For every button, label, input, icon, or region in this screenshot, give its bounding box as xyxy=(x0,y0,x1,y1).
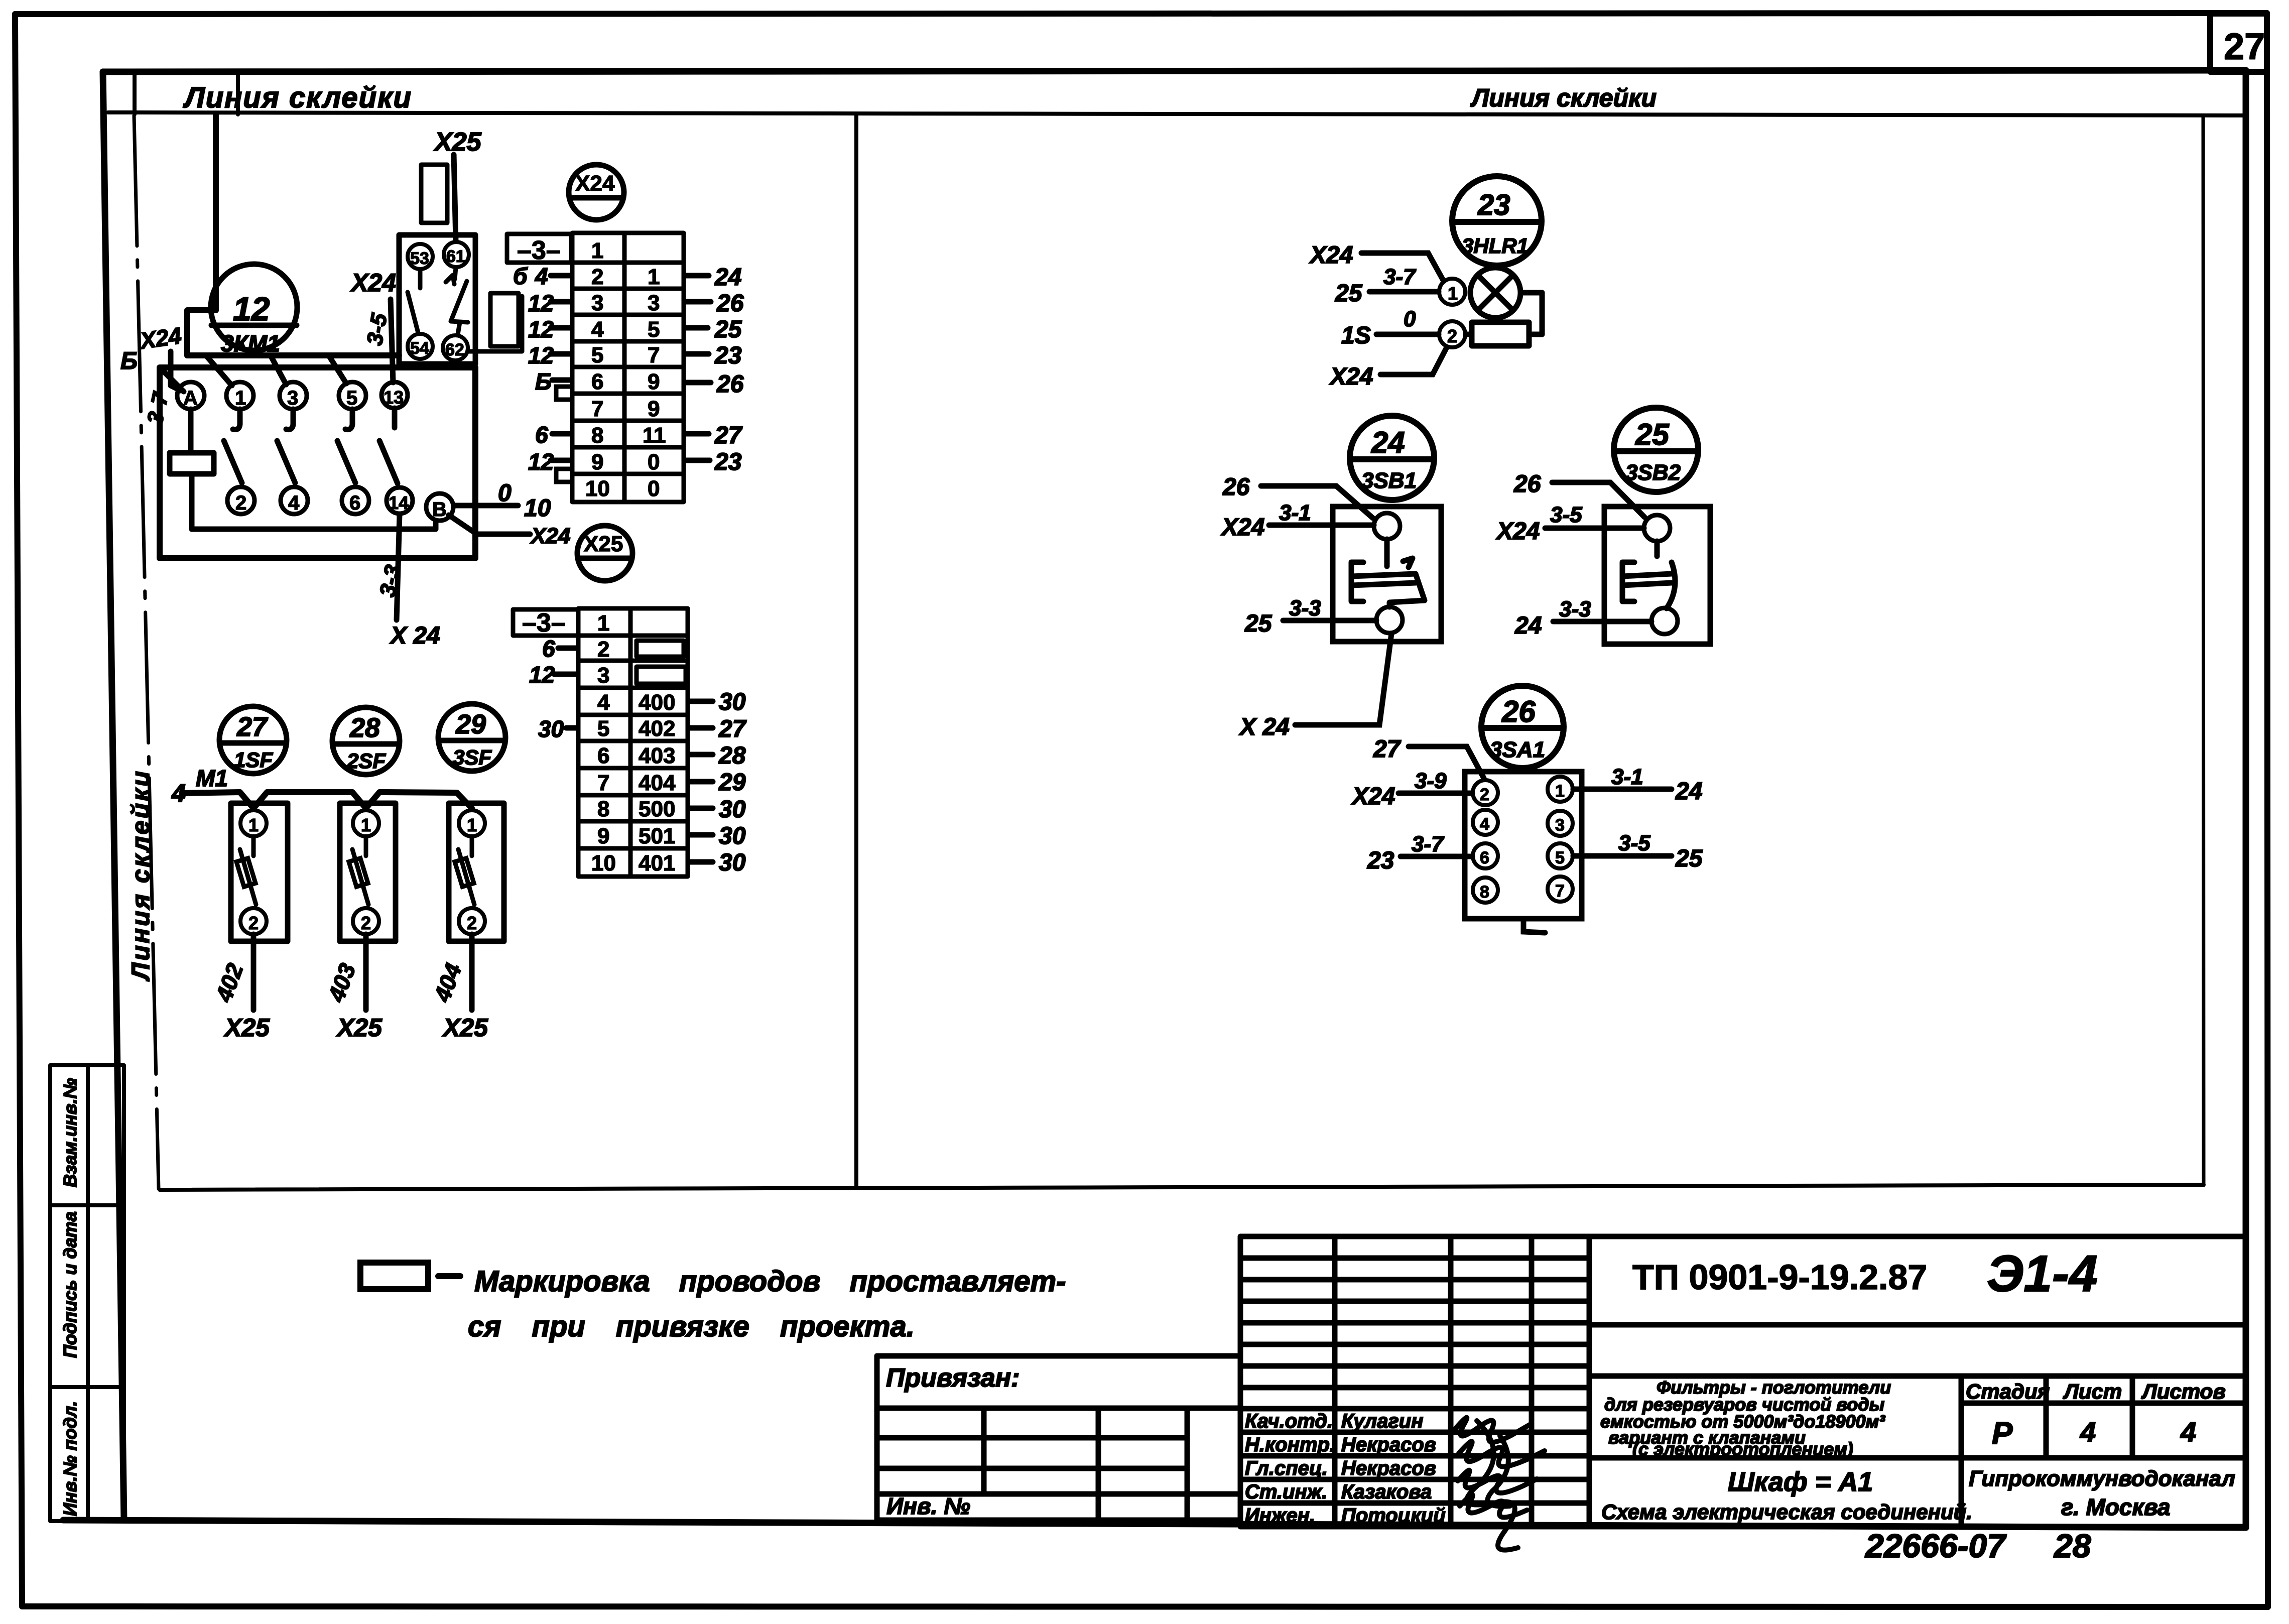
svg-text:5: 5 xyxy=(346,387,357,409)
terminal table X24 xyxy=(507,233,684,502)
3SA1 terminal 1 xyxy=(1548,777,1573,802)
svg-text:25: 25 xyxy=(714,316,742,343)
svg-text:5: 5 xyxy=(648,317,660,342)
svg-text:3: 3 xyxy=(648,291,660,315)
svg-text:23: 23 xyxy=(1367,847,1394,874)
svg-text:Б: Б xyxy=(535,368,552,395)
svg-text:30: 30 xyxy=(719,849,746,876)
terminal 13 xyxy=(381,382,408,408)
3SB1 bottom terminal xyxy=(1376,607,1403,633)
svg-text:13: 13 xyxy=(384,387,404,408)
svg-text:В: В xyxy=(432,498,447,521)
button 24/3SB1 designator circle xyxy=(1350,416,1434,500)
svg-text:25: 25 xyxy=(1635,418,1670,451)
3SA1 terminal 4 xyxy=(1473,810,1498,835)
svg-text:25: 25 xyxy=(1675,845,1703,872)
wire 1SF down to X25 xyxy=(251,934,257,1010)
svg-text:30: 30 xyxy=(719,796,746,823)
3SB1 top terminal xyxy=(1374,513,1400,539)
svg-text:8: 8 xyxy=(597,797,609,821)
svg-text:2: 2 xyxy=(361,913,371,933)
svg-text:3-1: 3-1 xyxy=(1279,501,1311,525)
glue line vertical right xyxy=(2203,115,2204,1185)
svg-text:2: 2 xyxy=(235,492,246,514)
svg-text:Шкаф = А1: Шкаф = А1 xyxy=(1728,1467,1873,1497)
svg-text:3-5: 3-5 xyxy=(1618,831,1650,855)
aux contact 61-62 with arrow xyxy=(455,268,456,279)
svg-text:12: 12 xyxy=(528,290,554,316)
privyazan block xyxy=(877,1356,1240,1520)
X24 table left edge hooks xyxy=(556,387,572,482)
wire X24 3-1 to 3SB1 top xyxy=(1269,523,1374,528)
svg-text:Гипрокоммунводоканал: Гипрокоммунводоканал xyxy=(1969,1466,2235,1491)
contact pole 5-6 xyxy=(345,409,352,430)
wire marking box at X25 wire xyxy=(421,165,447,223)
3SA1 terminal 5 xyxy=(1548,843,1573,868)
svg-text:9: 9 xyxy=(597,824,609,848)
title block grid xyxy=(1240,1236,2246,1527)
svg-text:24: 24 xyxy=(1371,426,1405,459)
svg-text:3SВ1: 3SВ1 xyxy=(1361,468,1417,493)
svg-text:Потоцкий: Потоцкий xyxy=(1341,1505,1446,1527)
svg-text:28: 28 xyxy=(349,713,380,743)
svg-text:6: 6 xyxy=(349,492,360,514)
svg-text:12: 12 xyxy=(528,449,554,475)
bus wire 4 M1 xyxy=(182,792,472,808)
lamp 23/3HLR1 designator circle xyxy=(1452,176,1542,266)
svg-text:Б: Б xyxy=(120,348,138,374)
svg-text:3-5: 3-5 xyxy=(1550,503,1582,527)
breaker 2SF body xyxy=(340,803,396,941)
svg-text:Стадия: Стадия xyxy=(1966,1380,2050,1403)
svg-text:–3–: –3– xyxy=(517,236,561,265)
svg-text:26: 26 xyxy=(1222,474,1250,501)
button 3SB1 body xyxy=(1333,507,1441,642)
schematic area middle divider xyxy=(854,115,858,1188)
svg-text:9: 9 xyxy=(648,397,660,421)
svg-text:Х24: Х24 xyxy=(1351,783,1395,810)
svg-text:26: 26 xyxy=(1513,471,1541,497)
coil 3KM1 xyxy=(170,453,214,474)
wire 62 to marking box xyxy=(468,296,522,351)
svg-text:4: 4 xyxy=(288,492,300,514)
svg-text:400: 400 xyxy=(639,690,675,715)
svg-text:Х24: Х24 xyxy=(1220,514,1264,541)
3SA1 terminal 8 xyxy=(1473,878,1498,903)
svg-text:26: 26 xyxy=(1501,695,1536,728)
wire X24 to lamp terminal 2 lower xyxy=(1380,347,1447,374)
svg-text:26: 26 xyxy=(716,371,744,398)
svg-text:26: 26 xyxy=(716,290,744,317)
svg-text:6: 6 xyxy=(535,422,548,448)
terminal B xyxy=(426,493,453,521)
3SA1 terminal 2 xyxy=(1473,780,1498,805)
svg-text:Привязан:: Привязан: xyxy=(886,1363,1020,1393)
svg-text:3-3: 3-3 xyxy=(1559,597,1591,621)
svg-text:3-7: 3-7 xyxy=(1383,265,1417,289)
wire B X24 3-7 down to terminal A xyxy=(171,351,181,391)
svg-text:Х24: Х24 xyxy=(1495,518,1540,545)
svg-text:2SF: 2SF xyxy=(346,749,386,773)
svg-text:Х 24: Х 24 xyxy=(1238,714,1290,740)
svg-text:29: 29 xyxy=(718,769,746,796)
svg-text:12: 12 xyxy=(528,342,554,368)
svg-text:3-7: 3-7 xyxy=(1412,832,1445,856)
svg-text:1SF: 1SF xyxy=(234,748,273,772)
svg-text:404: 404 xyxy=(639,771,676,795)
wire X24 to lamp terminal 1 upper xyxy=(1361,253,1444,281)
3SF breaker contact xyxy=(455,836,474,905)
svg-text:1: 1 xyxy=(248,815,259,835)
3SA1 terminal 3 xyxy=(1548,811,1573,836)
svg-text:10: 10 xyxy=(591,851,616,876)
svg-text:25: 25 xyxy=(1335,280,1363,307)
connector X25 designator circle xyxy=(577,526,632,581)
wire 15 0 to lamp terminal 2 xyxy=(1376,332,1439,337)
wire A to coil xyxy=(188,409,194,453)
wire 3-1 24 from terminal 1 xyxy=(1573,787,1672,792)
frame tick at wire top xyxy=(236,72,240,114)
wire X24 to 3SB1 bottom lower xyxy=(1295,634,1391,725)
switch 26/3SA1 designator circle xyxy=(1481,686,1564,768)
svg-text:501: 501 xyxy=(639,824,675,848)
wire housing corner to terminal A xyxy=(160,367,184,392)
svg-text:500: 500 xyxy=(639,797,675,821)
contact pole 1-2 xyxy=(233,409,240,430)
wire 3SF down to X25 xyxy=(469,934,475,1010)
legend dash xyxy=(438,1273,460,1279)
wire terminal B to X24 xyxy=(449,515,530,534)
terminal 6 xyxy=(342,487,369,514)
lamp symbol 3HLR1 xyxy=(1470,268,1520,318)
svg-text:1: 1 xyxy=(361,815,371,835)
wire 26 to 3SB1 top xyxy=(1261,486,1373,518)
svg-text:27: 27 xyxy=(714,422,743,449)
svg-text:12: 12 xyxy=(233,290,270,327)
svg-text:12: 12 xyxy=(529,662,555,688)
svg-text:7: 7 xyxy=(648,343,660,367)
svg-text:Некрасов: Некрасов xyxy=(1341,1434,1436,1456)
svg-text:27: 27 xyxy=(1373,736,1402,763)
contact pole 13-14 xyxy=(392,408,398,428)
svg-text:Взам.инв.№: Взам.инв.№ xyxy=(60,1078,80,1187)
svg-text:8: 8 xyxy=(591,423,603,448)
aux terminal 62 xyxy=(443,335,468,360)
svg-text:Инв.№ подл.: Инв.№ подл. xyxy=(60,1401,80,1516)
svg-text:4: 4 xyxy=(591,317,604,342)
1SF terminal 1 xyxy=(240,810,267,836)
svg-text:1: 1 xyxy=(597,611,609,636)
svg-text:7: 7 xyxy=(591,397,603,421)
svg-text:53: 53 xyxy=(410,249,429,268)
svg-text:3: 3 xyxy=(597,663,609,688)
svg-text:Инв. №: Инв. № xyxy=(886,1493,970,1519)
button 3SB2 body xyxy=(1604,507,1710,644)
glue line top horizontal xyxy=(108,112,2246,115)
connector X24 designator circle xyxy=(569,165,624,220)
svg-text:2: 2 xyxy=(1480,785,1489,804)
contactor housing top line xyxy=(187,352,399,358)
svg-text:3: 3 xyxy=(287,387,298,409)
svg-text:3HLR1: 3HLR1 xyxy=(1462,234,1529,258)
svg-text:Ст.инж.: Ст.инж. xyxy=(1245,1481,1327,1503)
svg-text:54: 54 xyxy=(410,339,429,358)
svg-text:Х24: Х24 xyxy=(1309,242,1353,269)
svg-text:5: 5 xyxy=(591,343,603,367)
svg-text:М1: М1 xyxy=(196,765,228,791)
svg-text:5: 5 xyxy=(597,716,609,741)
svg-text:Листов: Листов xyxy=(2141,1380,2226,1403)
terminal A xyxy=(177,382,204,409)
3SB2 NO contact symbol xyxy=(1622,541,1675,608)
wire 23 3-7 to terminal 6 xyxy=(1401,854,1472,859)
terminal 3 xyxy=(280,382,307,409)
svg-text:9: 9 xyxy=(591,450,603,474)
svg-text:3-9: 3-9 xyxy=(1415,769,1447,793)
svg-text:12: 12 xyxy=(528,316,554,342)
svg-text:Линия склейки: Линия склейки xyxy=(183,81,412,114)
designator circle 12/3KM1 xyxy=(211,264,297,350)
page number box xyxy=(2210,14,2267,72)
aux terminal 54 xyxy=(408,334,433,359)
svg-text:(с электроотоплением): (с электроотоплением) xyxy=(1632,1439,1853,1459)
3SA1 bottom hook xyxy=(1523,919,1545,933)
terminal 14 xyxy=(387,487,413,514)
svg-text:–3–: –3– xyxy=(522,608,566,638)
3SB2 top terminal xyxy=(1644,515,1670,541)
svg-text:Н.контр.: Н.контр. xyxy=(1245,1434,1335,1456)
svg-text:24: 24 xyxy=(714,264,741,291)
X24 right stubs xyxy=(685,276,711,460)
svg-text:4: 4 xyxy=(597,690,610,715)
wire X24 3-5 to 3SB2 top xyxy=(1545,526,1644,531)
svg-text:Маркировка проводов проставл: Маркировка проводов проставляет- xyxy=(474,1265,1066,1298)
svg-text:А: А xyxy=(183,387,198,409)
3SF terminal 1 xyxy=(459,810,485,836)
svg-text:0: 0 xyxy=(648,476,660,501)
svg-text:3SА1: 3SА1 xyxy=(1490,737,1545,762)
wire marking boxes in X25 rows 2 3 xyxy=(637,641,684,657)
svg-text:3: 3 xyxy=(591,291,603,315)
svg-text:22666-07: 22666-07 xyxy=(1864,1527,2007,1564)
svg-text:3-3: 3-3 xyxy=(1289,596,1321,620)
svg-text:Х25: Х25 xyxy=(442,1014,488,1042)
fuse 28/2SF designator circle xyxy=(332,707,400,775)
svg-text:г. Москва: г. Москва xyxy=(2061,1494,2171,1520)
svg-text:Х24: Х24 xyxy=(1329,363,1373,390)
svg-text:Э1-4: Э1-4 xyxy=(1987,1245,2098,1302)
svg-text:30: 30 xyxy=(719,689,746,715)
svg-text:Р: Р xyxy=(1992,1416,2013,1451)
svg-text:7: 7 xyxy=(597,771,609,795)
svg-text:ТП 0901-9-19.2.87: ТП 0901-9-19.2.87 xyxy=(1632,1258,1927,1297)
svg-text:24: 24 xyxy=(1514,612,1542,639)
svg-text:25: 25 xyxy=(1244,610,1273,637)
wire 24 3-3 to 3SB2 bottom xyxy=(1553,619,1651,624)
svg-text:1: 1 xyxy=(1448,283,1458,304)
3SF terminal 2 xyxy=(459,908,485,934)
svg-text:1: 1 xyxy=(591,238,603,263)
contact pole 3-4 xyxy=(286,409,293,430)
wire 27 into 3SA1 xyxy=(1409,746,1484,778)
aux contact block 53-61-54-62 xyxy=(399,235,475,364)
svg-text:30: 30 xyxy=(538,716,564,742)
svg-text:28: 28 xyxy=(718,742,746,769)
svg-text:14: 14 xyxy=(389,492,409,513)
svg-text:1: 1 xyxy=(467,815,477,835)
fuse 27/1SF designator circle xyxy=(219,706,287,774)
2SF breaker contact xyxy=(349,836,368,905)
svg-text:Лист: Лист xyxy=(2063,1380,2122,1403)
terminal 1 xyxy=(226,382,253,409)
terminal 5 xyxy=(339,382,366,409)
svg-text:4: 4 xyxy=(2180,1416,2196,1448)
aux terminal 61 xyxy=(444,242,469,267)
svg-text:28: 28 xyxy=(2053,1527,2091,1564)
X25 right stubs xyxy=(689,701,713,862)
3SA1 terminal 7 xyxy=(1548,877,1573,902)
svg-text:Казакова: Казакова xyxy=(1341,1481,1432,1503)
svg-text:27: 27 xyxy=(718,716,747,742)
svg-text:61: 61 xyxy=(446,247,465,266)
svg-text:3SF: 3SF xyxy=(453,745,492,769)
svg-text:23: 23 xyxy=(714,342,742,369)
svg-text:Некрасов: Некрасов xyxy=(1341,1457,1436,1479)
wire 2SF down to X25 xyxy=(363,934,369,1010)
svg-text:2: 2 xyxy=(597,637,609,662)
breaker 1SF body xyxy=(231,803,288,941)
wire diagonals housing to terminals 1 3 5 xyxy=(207,356,232,386)
aux terminal 53 xyxy=(408,244,433,269)
wire terminal 2 to resistor xyxy=(1465,332,1472,337)
wire lamp right to resistor xyxy=(1520,293,1542,334)
svg-text:Инжен.: Инжен. xyxy=(1245,1505,1315,1527)
wire from glue line down into contactor housing xyxy=(187,114,216,355)
glue line vertical dash-dot left xyxy=(134,115,159,1189)
svg-text:1: 1 xyxy=(648,265,660,289)
svg-text:Х25: Х25 xyxy=(336,1014,383,1042)
terminal 4 xyxy=(281,487,308,514)
svg-text:Х24: Х24 xyxy=(350,269,396,297)
svg-text:2: 2 xyxy=(591,265,603,289)
lamp terminal 1 xyxy=(1439,279,1465,305)
svg-text:4: 4 xyxy=(2080,1416,2096,1448)
svg-text:Линия склейки: Линия склейки xyxy=(126,769,155,981)
svg-text:1: 1 xyxy=(235,387,246,409)
2SF terminal 2 xyxy=(353,908,379,934)
wire X25 down to aux terminal 61 xyxy=(454,155,456,241)
3SB2 bottom terminal xyxy=(1651,608,1678,634)
document info strip left margin xyxy=(50,1065,124,1521)
svg-text:1: 1 xyxy=(1555,782,1565,801)
wire terminal B to 0 10 xyxy=(454,503,518,509)
breaker 3SF body xyxy=(449,803,504,941)
button 25/3SB2 designator circle xyxy=(1614,408,1698,492)
schematic area bottom border xyxy=(160,1185,2204,1190)
svg-text:Х 24: Х 24 xyxy=(389,622,440,649)
1SF terminal 2 xyxy=(240,908,267,934)
wire coil to bottom bus xyxy=(192,474,436,529)
svg-text:10: 10 xyxy=(524,495,551,522)
X25 left stubs xyxy=(554,648,577,728)
svg-text:6: 6 xyxy=(542,636,555,662)
svg-text:6: 6 xyxy=(591,369,603,394)
wire X24 3-5 down to terminal 13 xyxy=(391,299,393,383)
svg-text:ся при привязке проекта.: ся при привязке проекта. xyxy=(468,1310,915,1343)
terminal table X25 xyxy=(513,608,688,877)
aux contact 53-54 xyxy=(418,270,423,288)
fuse 29/3SF designator circle xyxy=(438,704,505,771)
svg-text:24: 24 xyxy=(1675,778,1702,805)
svg-text:62: 62 xyxy=(445,340,464,359)
frame tick left xyxy=(133,72,137,114)
wire 3-5 25 from terminal 5 xyxy=(1573,853,1672,859)
svg-text:1S: 1S xyxy=(1341,322,1371,349)
wire 25 3-7 to lamp terminal 1 xyxy=(1369,289,1439,295)
svg-text:3КМ1: 3КМ1 xyxy=(221,330,280,356)
wire X24 3-9 to terminal 2 xyxy=(1398,791,1472,796)
1SF breaker contact xyxy=(236,836,256,905)
svg-text:Схема электрическая соединений: Схема электрическая соединений. xyxy=(1601,1500,1972,1524)
svg-text:0: 0 xyxy=(648,450,660,474)
svg-text:Х25: Х25 xyxy=(584,532,623,556)
svg-text:11: 11 xyxy=(643,423,666,448)
wire terminal 14 down to X24 3-3 xyxy=(397,514,400,620)
svg-text:3: 3 xyxy=(1555,816,1565,835)
svg-text:Х24: Х24 xyxy=(530,524,570,548)
terminal 2 xyxy=(227,487,255,514)
svg-text:27: 27 xyxy=(236,712,269,742)
svg-text:7: 7 xyxy=(1555,882,1565,901)
svg-text:Кач.отд.: Кач.отд. xyxy=(1245,1410,1333,1432)
3SB1 NC contact symbol xyxy=(1351,539,1425,607)
svg-text:23: 23 xyxy=(1477,189,1510,221)
legend marking box xyxy=(360,1263,428,1289)
svg-text:Линия склейки: Линия склейки xyxy=(1470,84,1657,112)
svg-text:Х25: Х25 xyxy=(433,128,482,157)
svg-text:5: 5 xyxy=(1555,848,1565,867)
svg-text:Подпись и дата: Подпись и дата xyxy=(60,1211,80,1358)
svg-text:Х25: Х25 xyxy=(223,1014,270,1042)
svg-text:4: 4 xyxy=(1480,815,1489,834)
wire 26 to 3SB2 top xyxy=(1552,482,1644,517)
svg-text:8: 8 xyxy=(1480,883,1489,902)
svg-text:10: 10 xyxy=(585,476,610,501)
lamp terminal 2 xyxy=(1439,321,1465,347)
svg-text:9: 9 xyxy=(648,369,660,394)
svg-text:Х24: Х24 xyxy=(575,171,615,196)
3SA1 terminal 6 xyxy=(1473,843,1498,868)
contactor 12/3KM1 main body xyxy=(160,367,475,558)
svg-text:Кулагин: Кулагин xyxy=(1341,1410,1423,1432)
wire marking box right of aux xyxy=(490,293,519,346)
signatures scribble xyxy=(1456,1418,1545,1550)
svg-text:403: 403 xyxy=(639,743,675,768)
svg-text:Гл.спец.: Гл.спец. xyxy=(1245,1457,1328,1479)
X24 left stubs xyxy=(551,276,571,460)
svg-text:402: 402 xyxy=(639,716,675,741)
svg-text:4: 4 xyxy=(535,263,548,289)
svg-text:2: 2 xyxy=(1447,326,1457,346)
svg-text:0: 0 xyxy=(498,480,512,507)
2SF terminal 1 xyxy=(353,810,379,836)
svg-text:6: 6 xyxy=(597,743,609,768)
svg-text:23: 23 xyxy=(714,449,742,475)
svg-text:3SВ2: 3SВ2 xyxy=(1625,460,1681,485)
switch 3SA1 body xyxy=(1465,772,1582,919)
svg-text:б: б xyxy=(513,263,528,289)
svg-text:401: 401 xyxy=(639,851,675,876)
